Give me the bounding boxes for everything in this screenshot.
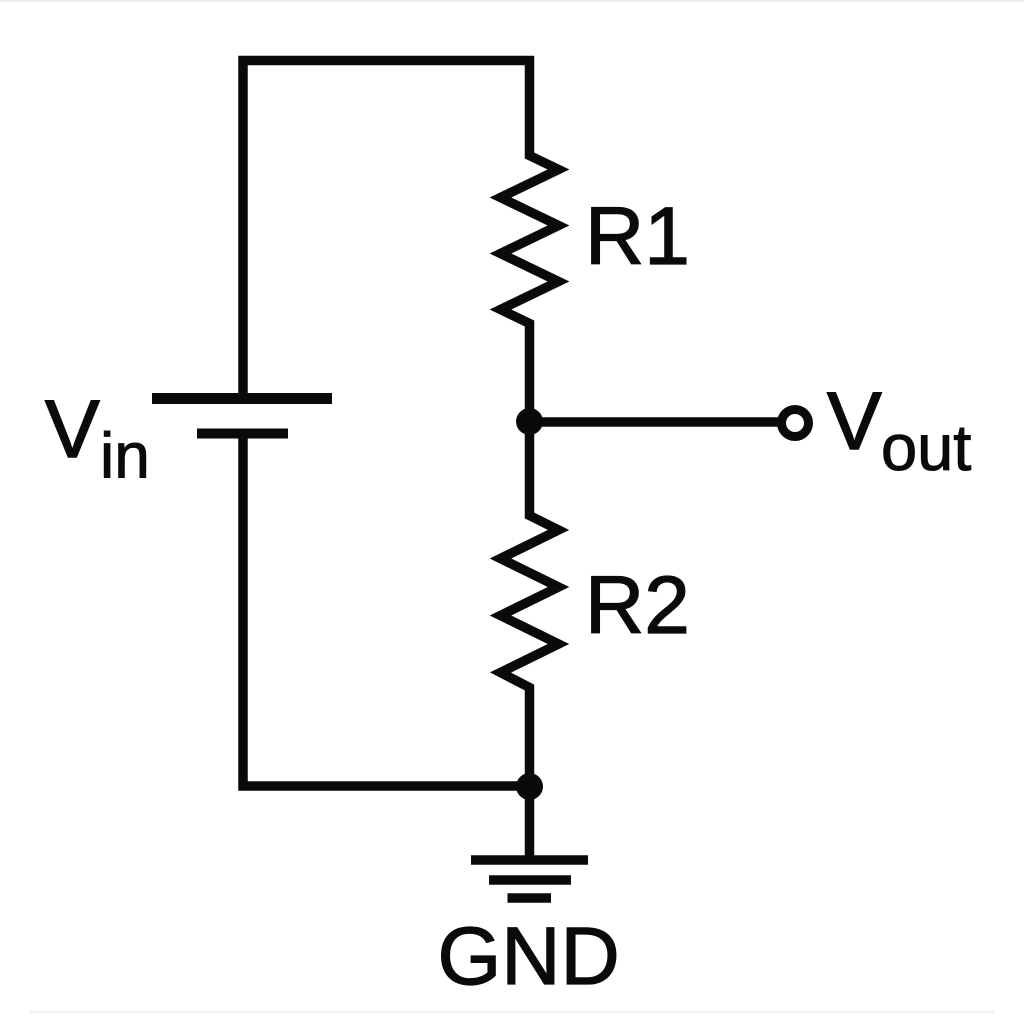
svg-text:V: V — [827, 376, 882, 467]
svg-text:R2: R2 — [585, 560, 690, 651]
svg-text:V: V — [45, 384, 100, 475]
svg-text:out: out — [881, 411, 971, 484]
svg-text:in: in — [100, 420, 150, 492]
svg-text:GND: GND — [438, 911, 620, 1002]
svg-text:R1: R1 — [585, 191, 690, 282]
